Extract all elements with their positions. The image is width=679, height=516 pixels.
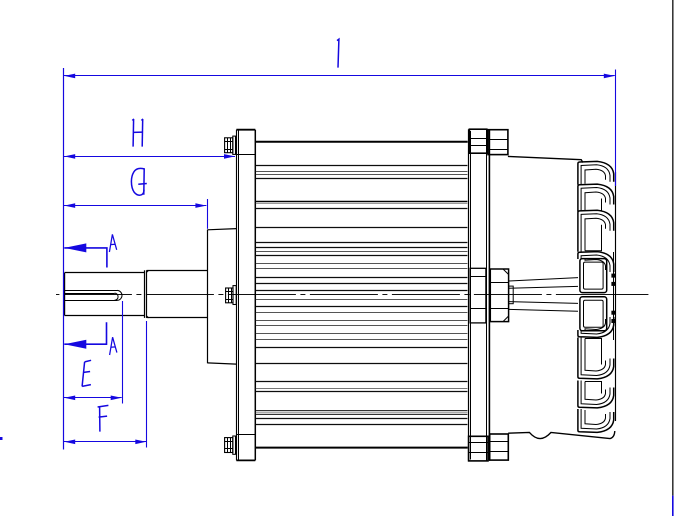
rear end cap outline (508, 156, 615, 438)
rib 8 (578, 409, 614, 432)
label H (132, 119, 143, 147)
hex bolt head B1 (front middle) (226, 288, 233, 303)
keyway (shaft key slot) (65, 290, 122, 300)
rear middle nut (490, 269, 508, 322)
stator housing body (255, 142, 467, 448)
rib 6 (578, 338, 614, 379)
frame border line (right edge, black) (672, 0, 674, 496)
stray dimension mark (left edge) (0, 437, 3, 440)
shaft second cylinder (147, 270, 208, 318)
rear bottom tie-rod head block (469, 436, 488, 461)
section marker A-A upper (64, 248, 107, 268)
label A upper (109, 234, 116, 252)
front end bracket plate (236, 130, 255, 461)
rear middle washer (470, 268, 486, 323)
rib middle vent box upper (580, 259, 607, 293)
dimension E extension line (keyway end) (122, 301, 124, 404)
dimension F line (64, 441, 146, 443)
rib 7 (578, 381, 614, 408)
centerline (shaft axis, dash-dot) (56, 294, 648, 296)
rear top cap ear (488, 130, 508, 155)
label F (98, 405, 109, 431)
label A lower (110, 337, 117, 355)
bearing boss (front hub) (207, 229, 236, 365)
shaft shoulder step face (145, 270, 147, 318)
rib 1 (578, 161, 614, 184)
end cap right silhouette (614, 172, 616, 421)
frame border line segment (right edge bottom, blue) (672, 496, 674, 516)
hex nut N2 (front bottom tie-rod) (225, 438, 233, 453)
rear top tie-rod head block (469, 129, 486, 153)
dimension I line (64, 75, 615, 77)
rear bottom cap ear (490, 434, 509, 460)
washer W2 (front middle) (233, 286, 236, 305)
rear shaft stub (509, 286, 514, 304)
label I (337, 39, 339, 67)
dimension G line (64, 205, 206, 207)
dimension F extension line (shaft step) (146, 321, 148, 448)
rib 5 (578, 317, 614, 337)
dimension G extension line (boss face) (207, 199, 209, 229)
rib 4 (578, 252, 614, 272)
rib 3 (578, 210, 614, 251)
rib middle vent box lower (580, 297, 607, 331)
label G (131, 168, 146, 195)
label E (82, 360, 91, 386)
section marker A-A lower (64, 322, 106, 344)
dimension E line (64, 397, 122, 399)
end cap vent ribs (578, 161, 614, 432)
shaft (output shaft) (65, 273, 145, 316)
centerline tail segment (617, 294, 648, 296)
cooling fins (horizontal fin lines) (256, 166, 468, 425)
tie rods (rear, to end cap) (509, 278, 578, 312)
datum extension line (shaft end) (63, 68, 65, 450)
end cap edge ticks (611, 274, 616, 323)
washer W3 (front bottom) (233, 436, 236, 454)
rib 2 (578, 184, 614, 211)
dimension H line (64, 156, 235, 158)
washer W1 (front top) (233, 136, 236, 154)
hex nut N1 (front top tie-rod) (225, 138, 233, 153)
dimension I extension line (cap rear) (615, 70, 617, 187)
rear end bracket column (469, 129, 490, 461)
